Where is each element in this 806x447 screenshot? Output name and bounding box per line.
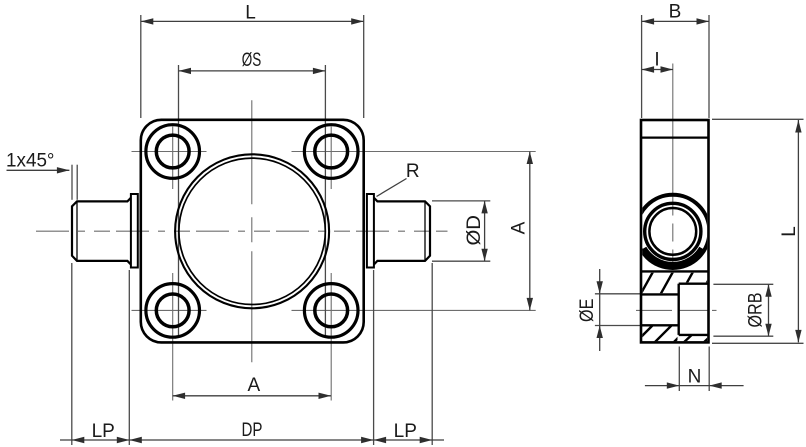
ORB extension lines	[713, 283, 773, 285]
N extension lines	[678, 347, 680, 392]
dimension B	[642, 20, 709, 22]
left pin chamfer line	[76, 201, 78, 261]
OE extension lines	[595, 293, 640, 295]
right collar	[367, 194, 374, 268]
side top band line	[641, 137, 709, 139]
svg-text:B: B	[669, 2, 682, 23]
dimension OD	[484, 201, 486, 261]
arrows A right	[527, 152, 533, 165]
leader R	[377, 179, 407, 197]
hatch top line	[641, 270, 709, 272]
dimension LP DP LP	[60, 439, 444, 441]
LP right pin-end extension	[431, 263, 433, 445]
svg-text:ØS: ØS	[242, 50, 262, 71]
pin circle	[645, 203, 701, 259]
dimension A right	[529, 152, 531, 311]
bolt hole bottom line	[641, 324, 679, 326]
chamfer extension lines	[71, 165, 73, 200]
svg-text:N: N	[688, 367, 702, 388]
central bore circle inner	[179, 158, 325, 304]
right pin chamfer line	[424, 201, 426, 261]
svg-text:I: I	[654, 50, 659, 71]
svg-text:ØRB: ØRB	[746, 293, 767, 328]
svg-text:A: A	[508, 221, 529, 234]
white fill right collar	[367, 194, 374, 268]
arrows N outside	[667, 382, 680, 388]
svg-text:ØE: ØE	[577, 299, 598, 322]
B left extension	[641, 15, 643, 118]
arrows DP	[129, 437, 142, 443]
right trunnion pin	[374, 198, 430, 265]
side body	[641, 120, 709, 342]
hole crosshair centerlines	[132, 127, 536, 401]
dimension OS	[179, 70, 326, 72]
white fill left collar	[131, 194, 138, 268]
arrows OS	[179, 68, 192, 74]
svg-text:R: R	[406, 161, 420, 182]
node hole BR crosshair	[292, 309, 536, 311]
arrows L top	[141, 18, 154, 24]
arrows ORB	[765, 284, 771, 297]
centerline side view vertical	[672, 64, 674, 271]
svg-text:ØD: ØD	[464, 215, 485, 246]
svg-text:LP: LP	[394, 421, 417, 442]
arrows B	[642, 18, 655, 24]
L side top extension	[712, 118, 804, 120]
node hole TL crosshair	[132, 151, 207, 153]
arrows OE outside	[597, 281, 603, 294]
OS right extension	[324, 65, 326, 336]
node hole BL crosshair	[132, 309, 207, 311]
svg-text:A: A	[247, 375, 260, 396]
L right extension	[363, 15, 365, 118]
bolt hole TR	[304, 125, 358, 179]
B right extension	[708, 15, 710, 118]
svg-text:L: L	[245, 3, 256, 24]
dimension OE	[599, 269, 601, 351]
collar seat bottom arc	[644, 248, 702, 265]
arrows LP right	[374, 437, 387, 443]
LP left pin-end extension	[71, 263, 73, 445]
left collar	[131, 194, 138, 268]
dimension I	[642, 69, 673, 71]
arrows LP left	[72, 437, 85, 443]
L left extension	[140, 15, 142, 118]
svg-text:1x45°: 1x45°	[6, 151, 55, 172]
dimension ORB	[768, 284, 770, 336]
collar circle	[636, 195, 709, 268]
left trunnion pin	[72, 198, 131, 265]
DP left collar-face extension	[128, 270, 130, 445]
recess left line	[678, 284, 680, 335]
svg-text:L: L	[779, 226, 800, 237]
L side bottom extension	[712, 342, 804, 344]
bolt hole top line	[641, 293, 679, 295]
white fill left pin	[72, 198, 131, 265]
flange body outline	[141, 120, 364, 343]
arrows L side	[795, 120, 801, 133]
white fill flange	[141, 120, 364, 343]
bolt hole BL	[146, 284, 200, 338]
dimension L side	[797, 120, 799, 342]
dimension N	[645, 385, 744, 387]
centerline horizontal main axis	[36, 64, 717, 363]
arrows A bottom	[173, 393, 186, 399]
OD extension lines	[432, 200, 490, 202]
white fill right pin	[374, 198, 430, 265]
section boundary lines	[641, 271, 709, 335]
arrows I	[642, 66, 655, 72]
dimension L top	[141, 20, 364, 22]
svg-text:LP: LP	[92, 421, 115, 442]
leader 1x45	[7, 169, 70, 171]
dimension A bottom	[173, 395, 331, 397]
centerline vertical main axis	[251, 100, 253, 362]
central bore circle outer	[175, 154, 329, 308]
recess top line	[679, 283, 709, 285]
recess bottom line	[679, 334, 709, 336]
thread circle	[649, 208, 696, 255]
arrows OD	[481, 201, 487, 214]
bolt hole TL	[146, 125, 358, 338]
bolt hole BR	[304, 284, 358, 338]
node hole TR crosshair	[292, 151, 536, 153]
OS left extension	[178, 65, 180, 336]
centerline side view bolt axis	[636, 309, 717, 311]
arrow 1x45 leader	[57, 167, 70, 173]
white fill side body	[641, 120, 709, 342]
DP right collar-face extension	[373, 270, 375, 445]
svg-text:DP: DP	[242, 420, 263, 441]
